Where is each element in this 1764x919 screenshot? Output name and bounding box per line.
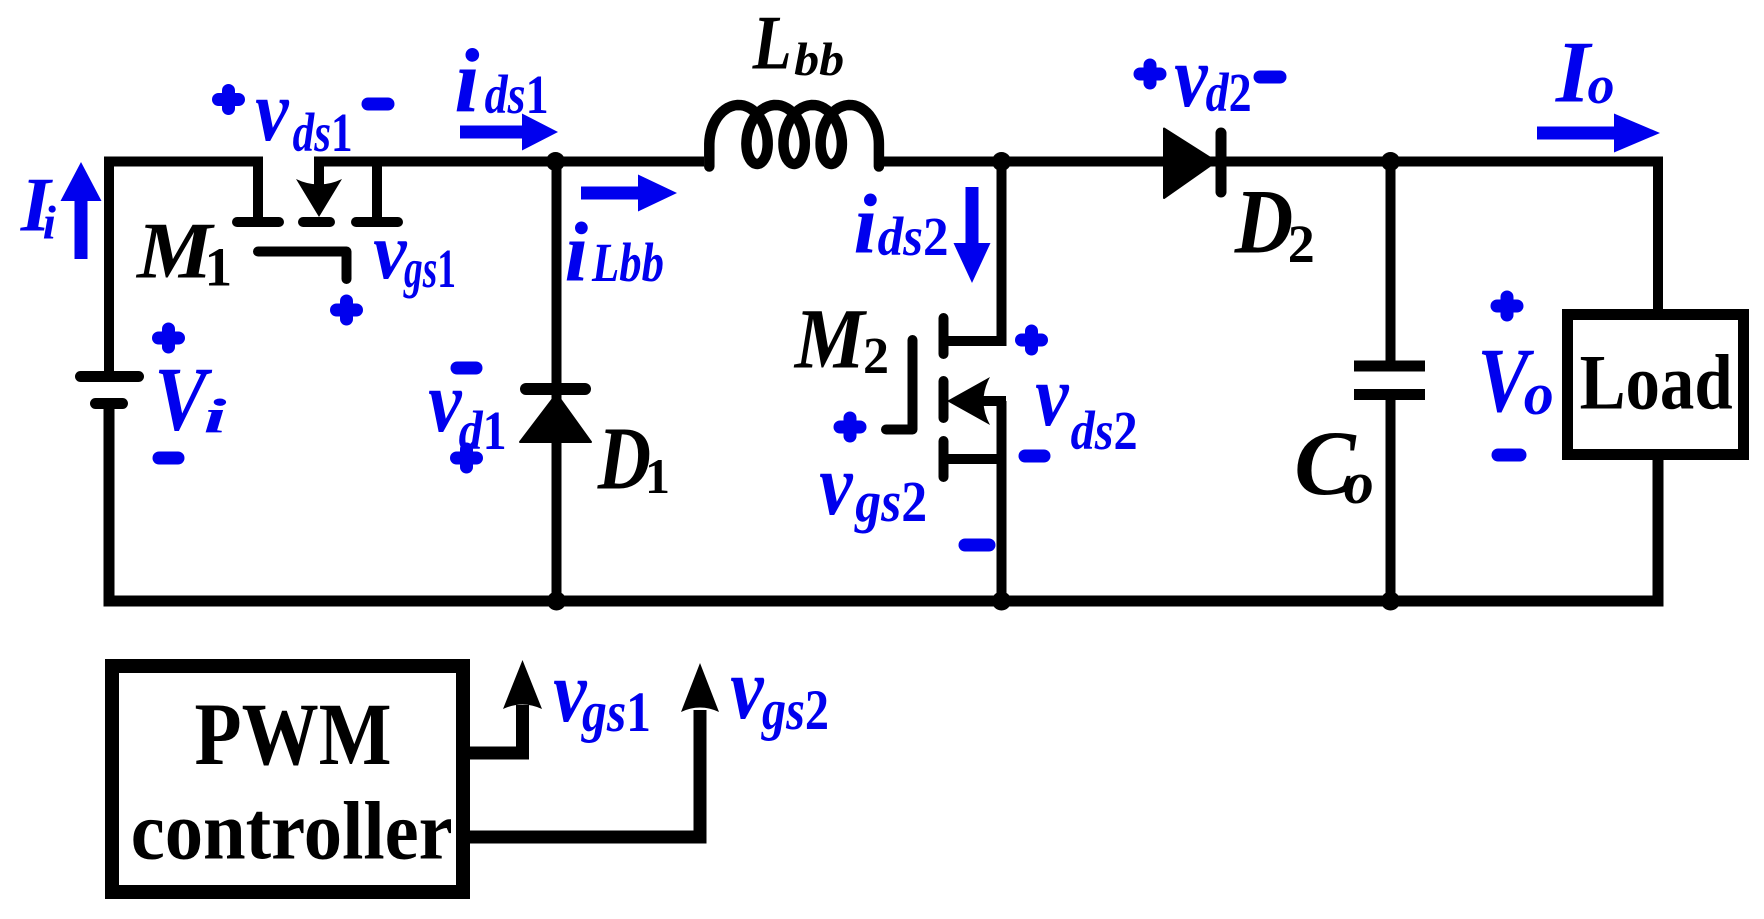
transistor M1 body arrowhead	[296, 179, 342, 217]
transistor M1 drain pad	[237, 217, 279, 227]
label Vo minus	[1498, 449, 1520, 462]
wire Co branch upper	[1386, 162, 1396, 362]
svg-text:L: L	[752, 0, 792, 86]
diode D1 triangle	[520, 394, 591, 442]
label Vi minus	[159, 452, 178, 465]
transistor M2 body arrowhead	[947, 377, 990, 425]
svg-text:ds1: ds1	[485, 64, 549, 125]
label vds1 minus	[368, 98, 388, 111]
svg-text:ds2: ds2	[1071, 400, 1138, 461]
wire Co branch lower	[1386, 400, 1396, 601]
wire D1 branch vertical	[552, 162, 562, 602]
label vd1 plus	[457, 449, 477, 467]
node top Lbb-M2	[992, 152, 1011, 171]
svg-text:PWM: PWM	[195, 686, 392, 784]
svg-text:M: M	[135, 206, 216, 296]
node bottom D1	[547, 592, 566, 611]
battery Vi short plate	[96, 398, 123, 409]
transistor M2 middle pad	[939, 381, 949, 418]
svg-text:gs1: gs1	[580, 681, 651, 744]
diode D2 triangle	[1164, 129, 1216, 199]
svg-text:v: v	[1035, 348, 1069, 445]
svg-text:2: 2	[863, 328, 889, 385]
svg-text:v: v	[730, 641, 764, 738]
svg-text:gs2: gs2	[760, 679, 829, 742]
transistor M2 source pad	[939, 441, 949, 477]
node top D2-Co	[1381, 152, 1400, 171]
svg-text:D: D	[1234, 171, 1293, 273]
wire top from M1 source to inductor	[314, 157, 704, 167]
svg-text:d2: d2	[1206, 62, 1252, 123]
svg-text:o: o	[1524, 361, 1554, 427]
svg-text:gs1: gs1	[403, 238, 456, 299]
transistor M1 body arrow lead	[314, 162, 324, 187]
wire M2 drain lead	[946, 162, 1002, 342]
svg-text:1: 1	[205, 237, 233, 298]
svg-text:i: i	[204, 389, 228, 444]
svg-text:ds1: ds1	[293, 102, 353, 163]
svg-text:controller: controller	[131, 785, 453, 877]
wire M2 source vertical	[997, 401, 1007, 601]
svg-text:gs2: gs2	[853, 469, 927, 534]
label vgs2 minus at M2	[965, 539, 989, 552]
svg-text:i: i	[454, 31, 479, 132]
PWM controller box	[112, 666, 463, 892]
inductor Lbb coil	[709, 105, 879, 167]
svg-text:ds2: ds2	[878, 206, 949, 267]
wire bottom rail	[109, 409, 1658, 601]
wire vgs2 gate drive output	[468, 710, 700, 837]
arrow Ii	[75, 200, 88, 259]
wire from source Vi up and right to M1 drain	[109, 162, 258, 381]
label Vi plus	[159, 329, 179, 347]
svg-text:2: 2	[1288, 214, 1315, 274]
arrowhead vgs2 output	[681, 663, 719, 712]
arrow ids1	[460, 126, 524, 139]
capacitor Co top plate	[1354, 361, 1425, 372]
arrow ids2	[966, 187, 979, 245]
svg-text:v: v	[819, 437, 853, 534]
arrowhead vgs1 output	[503, 660, 542, 709]
label vds1 plus	[219, 91, 239, 109]
svg-text:Lbb: Lbb	[591, 232, 664, 293]
svg-text:o: o	[1344, 450, 1374, 516]
svg-text:v: v	[373, 208, 408, 296]
capacitor Co bottom plate	[1354, 389, 1425, 400]
svg-text:v: v	[428, 354, 462, 451]
arrow iLbb	[581, 187, 640, 200]
svg-text:Load: Load	[1580, 339, 1733, 426]
wire vgs1 gate drive output	[468, 705, 523, 753]
svg-text:i: i	[43, 197, 57, 250]
transistor M1 gate	[258, 252, 347, 280]
node top M1-D1	[546, 152, 565, 171]
label vd1 minus	[457, 362, 476, 375]
svg-text:1: 1	[645, 448, 670, 504]
diode D2 cathode bar	[1216, 133, 1227, 192]
load box	[1568, 315, 1744, 455]
svg-text:i: i	[565, 206, 589, 300]
transistor M2 body arrow lead	[983, 396, 1006, 406]
node bottom Co	[1381, 592, 1400, 611]
svg-text:bb: bb	[794, 34, 844, 86]
svg-text:i: i	[854, 178, 878, 272]
transistor M1 source pad	[356, 217, 398, 227]
node bottom M2	[992, 592, 1011, 611]
svg-text:D: D	[597, 410, 651, 509]
wire top from inductor through D2 to right corner down to Load	[880, 162, 1658, 315]
transistor M2 drain pad	[939, 318, 949, 354]
label vds2 plus	[1022, 331, 1042, 349]
transistor M1 middle pad	[303, 217, 330, 227]
transistor M1 source lead	[372, 162, 382, 219]
transistor M2 gate	[886, 340, 913, 430]
label vd2 minus	[1260, 71, 1280, 84]
label Vo plus	[1497, 297, 1517, 315]
label vd2 plus	[1140, 65, 1160, 83]
diode D1 cathode bar	[526, 383, 585, 395]
svg-text:v: v	[255, 63, 289, 160]
battery Vi long plate	[81, 371, 139, 382]
wire M2 source stub	[944, 454, 1002, 464]
label M2 gate plus	[840, 418, 860, 436]
svg-text:v: v	[1174, 29, 1208, 126]
arrow Io	[1537, 127, 1616, 140]
svg-text:o: o	[1588, 55, 1615, 115]
label vds2 minus	[1025, 450, 1044, 463]
svg-text:M: M	[793, 291, 867, 387]
label M1 gate plus	[337, 301, 357, 319]
